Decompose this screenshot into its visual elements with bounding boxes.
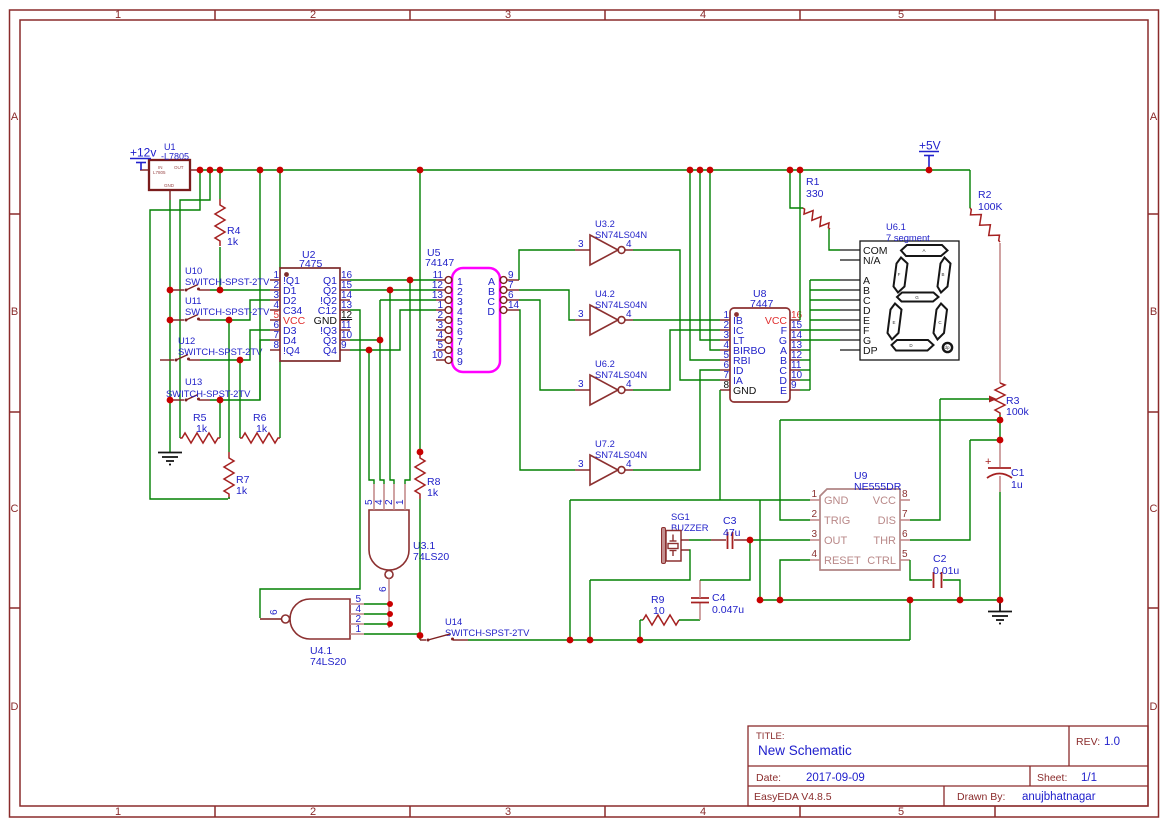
svg-text:74147: 74147 (425, 257, 454, 269)
svg-text:4: 4 (626, 309, 632, 320)
svg-text:L7805: L7805 (153, 170, 166, 175)
svg-text:CTRL: CTRL (867, 555, 896, 567)
svg-text:2: 2 (384, 499, 395, 505)
svg-text:A: A (11, 111, 19, 123)
svg-text:U10: U10 (185, 265, 202, 276)
svg-text:8: 8 (273, 340, 279, 351)
svg-text:NE555DR: NE555DR (854, 481, 902, 493)
svg-text:4: 4 (626, 239, 632, 250)
svg-text:4: 4 (811, 549, 817, 560)
svg-text:U7.2: U7.2 (595, 438, 615, 449)
svg-text:C4: C4 (712, 592, 726, 604)
svg-text:SG1: SG1 (671, 511, 690, 522)
svg-text:1/1: 1/1 (1081, 772, 1097, 784)
svg-text:GND: GND (733, 385, 757, 397)
svg-text:3: 3 (811, 529, 817, 540)
svg-text:1: 1 (115, 9, 121, 21)
svg-text:3: 3 (505, 806, 511, 818)
svg-text:7 segment: 7 segment (886, 232, 930, 243)
svg-text:4: 4 (700, 9, 706, 21)
svg-text:D: D (487, 306, 495, 318)
svg-text:U12: U12 (178, 335, 195, 346)
svg-text:TITLE:: TITLE: (756, 731, 785, 742)
svg-text:7475: 7475 (299, 258, 323, 270)
svg-text:SWITCH-SPST-2TV: SWITCH-SPST-2TV (185, 276, 270, 287)
svg-text:330: 330 (806, 188, 824, 200)
svg-text:R2: R2 (978, 189, 992, 201)
svg-text:EasyEDA V4.8.5: EasyEDA V4.8.5 (754, 791, 832, 803)
svg-text:0.047u: 0.047u (712, 604, 744, 616)
svg-text:4: 4 (700, 806, 706, 818)
svg-text:5: 5 (902, 549, 908, 560)
svg-text:SWITCH-SPST-2TV: SWITCH-SPST-2TV (445, 627, 530, 638)
svg-text:4: 4 (626, 459, 632, 470)
svg-text:2017-09-09: 2017-09-09 (806, 772, 865, 784)
svg-text:SN74LS04N: SN74LS04N (595, 449, 647, 460)
svg-text:SWITCH-SPST-2TV: SWITCH-SPST-2TV (166, 388, 251, 399)
svg-text:U11: U11 (185, 295, 202, 306)
svg-text:OUT: OUT (174, 165, 184, 170)
svg-text:10: 10 (653, 605, 665, 617)
svg-text:9: 9 (457, 356, 463, 368)
svg-text:+12v: +12v (130, 146, 156, 160)
svg-text:0.01u: 0.01u (933, 565, 959, 577)
svg-text:RESET: RESET (824, 555, 861, 567)
svg-text:Sheet:: Sheet: (1037, 772, 1067, 784)
svg-text:6: 6 (269, 609, 280, 615)
svg-text:B: B (941, 272, 944, 277)
svg-text:1: 1 (355, 624, 361, 635)
svg-text:SN74LS04N: SN74LS04N (595, 299, 647, 310)
svg-text:7447: 7447 (750, 298, 774, 310)
svg-text:C3: C3 (723, 515, 737, 527)
svg-text:U6.1: U6.1 (886, 221, 906, 232)
svg-text:-L7805: -L7805 (161, 152, 189, 162)
svg-text:TRIG: TRIG (824, 515, 850, 527)
svg-text:+: + (985, 456, 991, 468)
svg-text:dp: dp (944, 345, 950, 350)
svg-text:Drawn By:: Drawn By: (957, 791, 1005, 803)
svg-text:D: D (909, 343, 913, 348)
svg-text:DIS: DIS (878, 515, 896, 527)
svg-text:3: 3 (578, 379, 584, 390)
svg-text:8: 8 (902, 489, 908, 500)
svg-text:!Q4: !Q4 (283, 345, 300, 357)
svg-text:C: C (938, 320, 942, 325)
svg-text:R1: R1 (806, 176, 820, 188)
svg-text:100K: 100K (978, 201, 1003, 213)
svg-text:1: 1 (395, 499, 406, 505)
svg-text:9: 9 (341, 340, 347, 351)
svg-text:C: C (11, 503, 19, 515)
svg-text:74LS20: 74LS20 (310, 656, 346, 668)
svg-text:74LS20: 74LS20 (413, 551, 449, 563)
svg-text:8: 8 (723, 380, 729, 391)
svg-text:DP: DP (863, 345, 878, 357)
svg-text:C2: C2 (933, 553, 947, 565)
svg-text:E: E (780, 385, 787, 397)
svg-text:4: 4 (626, 379, 632, 390)
svg-text:+5V: +5V (919, 139, 941, 153)
svg-text:2: 2 (310, 9, 316, 21)
svg-text:6: 6 (902, 529, 908, 540)
svg-text:U4.2: U4.2 (595, 288, 615, 299)
svg-text:VCC: VCC (873, 495, 896, 507)
svg-text:N/A: N/A (863, 255, 881, 267)
svg-text:3: 3 (578, 459, 584, 470)
svg-text:1k: 1k (236, 485, 248, 497)
svg-text:anujbhatnagar: anujbhatnagar (1022, 791, 1096, 803)
svg-text:1k: 1k (256, 423, 268, 435)
svg-text:5: 5 (898, 9, 904, 21)
svg-text:SN74LS04N: SN74LS04N (595, 229, 647, 240)
svg-text:BUZZER: BUZZER (671, 522, 709, 533)
svg-text:3: 3 (578, 309, 584, 320)
svg-text:B: B (1150, 306, 1157, 318)
svg-text:C: C (1150, 503, 1158, 515)
svg-text:1k: 1k (427, 487, 439, 499)
svg-text:6: 6 (378, 586, 389, 592)
svg-text:U3.2: U3.2 (595, 218, 615, 229)
svg-text:Q4: Q4 (323, 345, 337, 357)
svg-text:G: G (915, 295, 919, 300)
svg-text:U13: U13 (185, 376, 202, 387)
svg-text:SWITCH-SPST-2TV: SWITCH-SPST-2TV (178, 346, 263, 357)
svg-text:10: 10 (432, 350, 444, 361)
svg-text:47u: 47u (723, 527, 741, 539)
svg-text:U6.2: U6.2 (595, 358, 615, 369)
svg-text:1.0: 1.0 (1104, 736, 1120, 748)
svg-text:A: A (1150, 111, 1158, 123)
svg-text:B: B (11, 306, 18, 318)
svg-text:OUT: OUT (824, 535, 848, 547)
svg-text:1: 1 (811, 489, 817, 500)
svg-text:5: 5 (898, 806, 904, 818)
svg-text:Date:: Date: (756, 772, 781, 784)
svg-text:7: 7 (902, 509, 908, 520)
svg-text:D: D (1150, 701, 1158, 713)
svg-text:3: 3 (578, 239, 584, 250)
svg-text:GND: GND (164, 183, 175, 188)
svg-text:SWITCH-SPST-2TV: SWITCH-SPST-2TV (185, 306, 270, 317)
svg-text:1: 1 (115, 806, 121, 818)
svg-text:2: 2 (310, 806, 316, 818)
svg-text:1k: 1k (227, 236, 239, 248)
svg-text:14: 14 (508, 300, 520, 311)
svg-text:U14: U14 (445, 616, 462, 627)
svg-text:THR: THR (873, 535, 896, 547)
svg-text:1u: 1u (1011, 479, 1023, 491)
svg-text:U1: U1 (164, 142, 176, 152)
svg-text:D: D (11, 701, 19, 713)
svg-text:9: 9 (791, 380, 797, 391)
svg-text:GND: GND (824, 495, 849, 507)
svg-text:100k: 100k (1006, 406, 1030, 418)
svg-text:F: F (898, 272, 901, 277)
svg-text:SN74LS04N: SN74LS04N (595, 369, 647, 380)
svg-text:C1: C1 (1011, 467, 1025, 479)
svg-text:New Schematic: New Schematic (758, 743, 852, 758)
svg-text:2: 2 (811, 509, 817, 520)
svg-text:A: A (922, 248, 925, 253)
svg-text:1k: 1k (196, 423, 208, 435)
svg-text:E: E (892, 320, 895, 325)
svg-text:REV:: REV: (1076, 736, 1100, 748)
svg-text:3: 3 (505, 9, 511, 21)
